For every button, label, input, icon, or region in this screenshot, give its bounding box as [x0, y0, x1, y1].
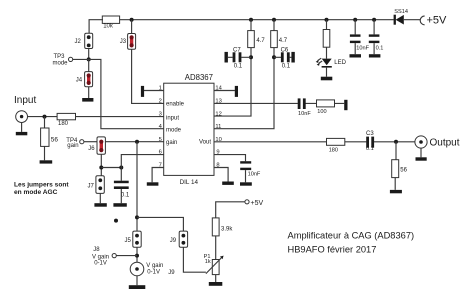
ground under J7	[94, 193, 106, 206]
svg-text:10nF: 10nF	[356, 45, 369, 51]
svg-text:1k: 1k	[205, 259, 211, 265]
svg-text:enable: enable	[166, 102, 185, 108]
pin labels inside	[166, 102, 211, 147]
svg-text:+5V: +5V	[251, 200, 264, 207]
node rail LED branch	[325, 18, 329, 22]
svg-text:4.7: 4.7	[279, 38, 288, 44]
terminal TP3 mode	[53, 54, 73, 66]
resistor 180 (output)	[327, 138, 345, 153]
svg-text:Les jumpers sont: Les jumpers sont	[14, 182, 69, 189]
svg-text:C3: C3	[366, 131, 374, 137]
ground under 56	[40, 160, 53, 163]
capacitor C3	[366, 131, 374, 152]
node rail R4.7b junction	[272, 18, 276, 22]
pin 1 stub and bar	[141, 86, 164, 97]
capacitor 10nF (rail)	[350, 20, 370, 52]
svg-text:LED: LED	[334, 60, 346, 66]
resistor 4.7 (a)	[248, 31, 266, 48]
svg-text:J8: J8	[93, 247, 100, 253]
node rail 0.1 branch	[372, 18, 376, 22]
terminal J8 V gain	[92, 247, 116, 266]
jumper J4 (closed, red)	[76, 72, 93, 87]
ground under J4	[82, 98, 93, 102]
ground under Input BNC	[16, 123, 27, 136]
wire 3.9k to pot	[215, 236, 217, 260]
wire R4.7b to pin11	[214, 48, 274, 129]
node J5/J9 branch	[135, 215, 139, 219]
svg-text:J3: J3	[120, 39, 127, 45]
wire pin7 to ground	[147, 168, 164, 186]
capacitor C7	[225, 48, 252, 70]
node rail 10nF branch	[353, 18, 357, 22]
svg-text:J9: J9	[168, 270, 175, 276]
ground under rail 0.1	[369, 43, 381, 57]
svg-text:0-1V: 0-1V	[94, 260, 107, 266]
wire resistor to LED	[326, 47, 328, 58]
wire TP3 to mode pin4	[73, 59, 164, 128]
wire pin13 chain	[214, 102, 344, 104]
wire pin6 to cap	[121, 155, 163, 181]
node C6 junction	[272, 55, 276, 59]
ground under pin9 10nF	[240, 170, 252, 186]
wire J6 bottom to J7	[100, 154, 102, 176]
op-amp U1 AD8367 body	[164, 73, 214, 186]
wire pin8 to ground	[214, 168, 234, 185]
connector V gain BNC	[130, 262, 163, 276]
svg-text:J6: J6	[88, 146, 95, 152]
wire J5 bottom to Vgain BNC	[136, 247, 138, 262]
svg-text:Vout: Vout	[199, 139, 211, 145]
svg-text:0.1: 0.1	[376, 45, 384, 51]
svg-text:0-1V: 0-1V	[147, 270, 160, 276]
jumper J3 (closed, red)	[120, 34, 136, 50]
capacitor 10nF (pin9)	[240, 161, 261, 177]
svg-text:gain: gain	[67, 143, 78, 149]
jumper J2	[75, 33, 93, 48]
svg-text:AD8367: AD8367	[185, 73, 213, 82]
pin numbers left	[159, 86, 163, 169]
resistor 3.9k	[212, 218, 233, 236]
svg-text:J5: J5	[125, 238, 132, 244]
wire node to 56 output	[394, 142, 397, 190]
node C7 junction	[249, 55, 253, 59]
svg-text:10nF: 10nF	[248, 172, 261, 178]
svg-text:10k: 10k	[103, 24, 114, 30]
ground under LED	[321, 68, 333, 81]
wire Input to R180	[28, 116, 57, 118]
wire TP3 node to J4	[88, 59, 90, 98]
svg-text:180: 180	[329, 147, 338, 153]
ground under V gain BNC	[129, 276, 146, 289]
svg-text:J2: J2	[75, 39, 82, 45]
ground under output 56	[390, 190, 402, 193]
title text	[288, 231, 415, 255]
wire pin9 to 10nF	[214, 155, 246, 162]
wire rail to R4.7a	[250, 20, 252, 31]
resistor 56 (output)	[392, 160, 408, 178]
wire J3 to enable pin2	[132, 49, 164, 103]
svg-text:+5V: +5V	[427, 14, 448, 26]
ground under pot	[209, 282, 223, 286]
svg-text:input: input	[166, 116, 179, 122]
terminal TP4 gain	[66, 138, 84, 149]
svg-text:DIL 14: DIL 14	[180, 179, 199, 186]
wire J6 to gain pin5	[105, 141, 163, 143]
svg-text:3.9k: 3.9k	[221, 226, 233, 232]
svg-text:TP3: TP3	[54, 54, 66, 60]
wire rail to J3	[131, 20, 133, 34]
diode SS14	[394, 9, 408, 25]
wire node to cap node	[101, 167, 121, 169]
svg-text:56: 56	[51, 137, 59, 144]
wire 180 to input pin3	[76, 116, 164, 118]
capacitor 0.1 (rail)	[369, 20, 384, 52]
node TP3/mode junction	[87, 57, 91, 61]
jumper J6 (closed, red)	[88, 137, 105, 154]
svg-text:0.1: 0.1	[282, 63, 291, 69]
jumper J5	[125, 231, 142, 247]
svg-text:mode: mode	[166, 127, 182, 133]
svg-text:180: 180	[58, 121, 69, 127]
wire gain node down to J5	[136, 142, 138, 231]
svg-text:en mode AGC: en mode AGC	[14, 189, 58, 196]
svg-text:5: 5	[159, 137, 162, 143]
resistor 100	[317, 100, 335, 115]
svg-text:3: 3	[159, 112, 162, 118]
resistor 10k	[102, 16, 119, 30]
ground under rail 10nF	[350, 43, 362, 57]
node rail/J3 junction	[130, 18, 134, 22]
svg-text:J9: J9	[170, 238, 177, 244]
wire +5V to 3.9k	[216, 202, 245, 218]
svg-text:Input: Input	[14, 95, 36, 106]
svg-text:Output: Output	[430, 138, 460, 149]
capacitor 0.1 (gain)	[114, 181, 130, 199]
wire rail to LED resistor	[326, 20, 328, 30]
svg-text:10nF: 10nF	[298, 111, 311, 117]
resistor (LED series)	[323, 30, 330, 48]
svg-text:V gain: V gain	[146, 263, 163, 269]
svg-text:100: 100	[317, 109, 326, 115]
wire R4.7a to pin12	[214, 48, 251, 117]
node rail R4.7a junction	[249, 18, 253, 22]
wire branch to J9	[137, 217, 183, 231]
svg-text:4.7: 4.7	[256, 38, 265, 44]
node input junction	[43, 115, 47, 119]
wire 10k left to J2	[89, 20, 103, 34]
resistor 180 (input)	[57, 113, 75, 126]
svg-text:SS14: SS14	[394, 9, 408, 15]
svg-text:mode: mode	[53, 60, 69, 66]
wire node to 56 resistor	[44, 117, 46, 161]
connector Output BNC	[415, 136, 460, 149]
wire rail to R4.7b	[273, 20, 275, 31]
stray junction dot	[114, 219, 118, 223]
node pin6 cap junction	[119, 166, 123, 170]
bar terminator after 100	[344, 100, 347, 110]
svg-text:0.1: 0.1	[121, 193, 130, 199]
jumper J9	[170, 231, 188, 247]
node J8 branch	[135, 254, 139, 258]
node gain junction	[135, 140, 139, 144]
wire J9 bottom to pot wiper	[183, 247, 206, 272]
jumper J7	[88, 176, 105, 194]
resistor 56 (input)	[41, 128, 59, 146]
terminal +5V (pot)	[245, 200, 264, 207]
capacitor 10nF (pin13)	[298, 98, 312, 116]
node J6/J7 junction	[99, 166, 103, 170]
LED D1	[316, 58, 347, 67]
wire +5V rail	[120, 19, 421, 21]
pin numbers right	[215, 86, 222, 169]
ground under Output BNC	[416, 148, 427, 161]
svg-text:gain: gain	[166, 140, 177, 146]
connector Input BNC	[16, 111, 28, 123]
svg-text:J4: J4	[76, 78, 83, 84]
svg-text:6: 6	[159, 150, 162, 156]
wire TP4 to J6	[84, 141, 97, 143]
wire branch to J8 terminal	[116, 255, 137, 257]
node output junction	[394, 140, 398, 144]
terminal +5V (top)	[420, 14, 447, 26]
svg-text:HB9AFO février 2017: HB9AFO février 2017	[288, 245, 377, 255]
svg-text:Amplificateur à CAG (AD8367): Amplificateur à CAG (AD8367)	[288, 231, 415, 241]
ground under 0.1	[113, 189, 126, 207]
pin 14 stub and bar	[214, 86, 238, 97]
svg-text:0.1: 0.1	[366, 146, 374, 152]
wire pot to ground	[215, 275, 217, 282]
svg-text:12: 12	[215, 112, 221, 118]
wire J2 bottom to TP3 node	[88, 49, 90, 60]
svg-text:J7: J7	[88, 184, 95, 190]
capacitor C6	[274, 48, 295, 70]
wire Vout pin10 to output	[214, 141, 415, 143]
svg-text:2: 2	[159, 99, 162, 105]
svg-text:56: 56	[400, 168, 407, 174]
svg-text:0.1: 0.1	[234, 63, 243, 69]
resistor 4.7 (b)	[271, 31, 288, 48]
svg-text:V gain: V gain	[92, 254, 109, 260]
potentiometer P1 1k	[204, 254, 224, 274]
red annotation	[14, 182, 69, 196]
